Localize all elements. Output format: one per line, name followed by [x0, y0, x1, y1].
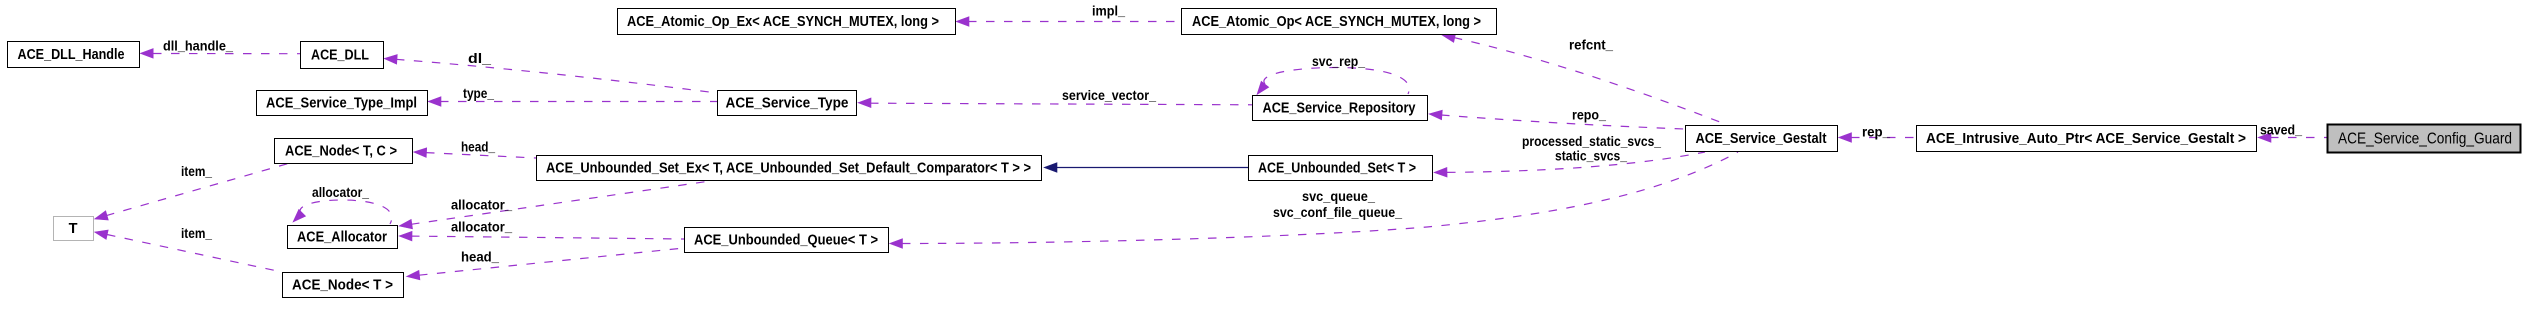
label item_: [181, 163, 212, 179]
svg-text:allocator_: allocator_: [312, 184, 369, 200]
edge service_vector_ (ACE_Service_Repository to ACE_Service_Type): [870, 103, 1252, 105]
edge inheritance (ACE_Unbounded_Set derives from ACE_Unbounded_Set_Ex): [1057, 167, 1248, 169]
label rep_: [1862, 124, 1890, 140]
edge allocator_ (ACE_Unbounded_Queue to ACE_Allocator): [411, 236, 684, 239]
svg-text:ACE_Allocator: ACE_Allocator: [297, 230, 387, 246]
arrowhead service_vector_: [858, 98, 871, 108]
svg-text:service_vector_: service_vector_: [1062, 87, 1156, 103]
arrowhead dll_handle_: [140, 49, 153, 59]
node ACE_DLL: [301, 42, 384, 69]
svg-text:repo_: repo_: [1572, 107, 1606, 123]
node ACE_Node( T ): [283, 273, 404, 298]
svg-text:static_svcs_: static_svcs_: [1555, 148, 1627, 164]
arrowhead rep_: [1839, 133, 1852, 143]
arrowhead impl_: [956, 17, 969, 27]
node ACE_Service_Config_Guard: [2328, 125, 2521, 153]
arrowhead item_ lower: [93, 227, 108, 239]
svg-text:rep_: rep_: [1862, 124, 1890, 140]
node ACE_Service_Type_Impl: [257, 91, 428, 116]
svg-text:svc_rep_: svc_rep_: [1312, 53, 1365, 69]
svg-text:ACE_Service_Type: ACE_Service_Type: [726, 96, 849, 112]
arrowhead head_ lower: [406, 270, 420, 281]
label svc_conf_file_queue_: [1273, 204, 1402, 220]
edge head_ (ACE_Unbounded_Queue to ACE_Node T): [419, 248, 684, 275]
svg-text:allocator_: allocator_: [451, 219, 512, 235]
svg-text:ACE_Service_Gestalt: ACE_Service_Gestalt: [1696, 131, 1827, 147]
node ACE_Service_Type: [718, 91, 857, 116]
label allocator_: [451, 219, 512, 235]
svg-text:svc_queue_: svc_queue_: [1302, 188, 1375, 204]
label processed_static_svcs_: [1522, 133, 1661, 149]
edge refcnt_ (ACE_Service_Gestalt to ACE_Atomic_Op): [1454, 38, 1725, 124]
svg-text:ACE_DLL_Handle: ACE_DLL_Handle: [18, 47, 125, 63]
edge saved_ (ACE_Service_Config_Guard to ACE_Intrusive_Auto_Ptr): [2270, 137, 2327, 139]
label refcnt_: [1569, 37, 1613, 53]
label saved_: [2260, 122, 2302, 138]
label item_: [181, 225, 212, 241]
edge item_ (ACE_Node T to T): [107, 235, 282, 273]
svg-text:head_: head_: [461, 139, 495, 155]
svg-text:ACE_Unbounded_Set_Ex< T, ACE_U: ACE_Unbounded_Set_Ex< T, ACE_Unbounded_S…: [546, 161, 1031, 177]
svg-text:T: T: [69, 221, 78, 237]
arrowhead dl_: [384, 54, 398, 64]
node ACE_DLL_Handle: [8, 42, 140, 68]
arrowhead refcnt_: [1441, 30, 1456, 42]
label dll_handle_: [163, 38, 233, 54]
svg-text:svc_conf_file_queue_: svc_conf_file_queue_: [1273, 204, 1402, 220]
label dl_: [468, 50, 491, 66]
svg-text:ACE_Node< T >: ACE_Node< T >: [292, 278, 393, 294]
svg-text:item_: item_: [181, 225, 212, 241]
svg-text:item_: item_: [181, 163, 212, 179]
svg-text:impl_: impl_: [1092, 3, 1125, 19]
arrowhead saved_: [2258, 133, 2271, 143]
arrowhead svc_rep_: [1253, 81, 1269, 97]
arrowhead item_ upper: [93, 211, 108, 224]
arrowhead inheritance: [1044, 163, 1057, 173]
arrowhead allocator_ upper: [398, 219, 412, 230]
label head_: [461, 249, 499, 265]
svg-text:ACE_Unbounded_Set< T >: ACE_Unbounded_Set< T >: [1258, 161, 1416, 177]
edge svc_rep_ self-loop on ACE_Service_Repository: [1264, 68, 1409, 95]
node T: [54, 217, 94, 241]
arrowhead static_svcs_: [1434, 167, 1447, 177]
arrowhead head_ upper: [413, 147, 426, 157]
svg-text:allocator_: allocator_: [451, 197, 512, 213]
node ACE_Allocator: [288, 226, 398, 249]
node ACE_Unbounded_Set( T ): [1249, 156, 1433, 181]
edge head_ (ACE_Unbounded_Set_Ex to ACE_Node T C): [426, 153, 536, 158]
label service_vector_: [1062, 87, 1156, 103]
label allocator_: [312, 184, 369, 200]
node ACE_Unbounded_Set_Ex( T, ACE_Unbounded_Set_Default_Comparator( T ) ): [537, 156, 1042, 181]
svg-text:dl_: dl_: [468, 50, 491, 66]
svg-text:saved_: saved_: [2260, 122, 2302, 138]
label repo_: [1572, 107, 1606, 123]
svg-text:head_: head_: [461, 249, 499, 265]
arrowhead type_: [428, 97, 441, 107]
svg-text:ACE_Service_Type_Impl: ACE_Service_Type_Impl: [266, 96, 417, 112]
edge rep_ (ACE_Intrusive_Auto_Ptr to ACE_Service_Gestalt): [1851, 137, 1916, 139]
node ACE_Service_Gestalt: [1686, 126, 1838, 152]
svg-text:ACE_DLL: ACE_DLL: [311, 48, 369, 64]
svg-text:dll_handle_: dll_handle_: [163, 38, 233, 54]
edge dll_handle_ (ACE_DLL to ACE_DLL_Handle): [153, 53, 300, 55]
svg-text:ACE_Atomic_Op< ACE_SYNCH_MUTEX: ACE_Atomic_Op< ACE_SYNCH_MUTEX, long >: [1192, 14, 1481, 30]
svg-text:ACE_Node< T, C >: ACE_Node< T, C >: [285, 144, 397, 160]
label svc_rep_: [1312, 53, 1365, 69]
svg-text:refcnt_: refcnt_: [1569, 37, 1613, 53]
node ACE_Unbounded_Queue( T ): [685, 228, 889, 253]
edge processed_static_svcs_/static_svcs_ (ACE_Service_Gestalt to ACE_Unbounded_Set): [1447, 152, 1705, 172]
svg-text:ACE_Unbounded_Queue< T >: ACE_Unbounded_Queue< T >: [694, 233, 878, 249]
edge item_ (ACE_Node T C to T): [106, 163, 290, 216]
edge allocator_ (ACE_Unbounded_Set_Ex to ACE_Allocator): [411, 180, 717, 224]
edge type_ (ACE_Service_Type to ACE_Service_Type_Impl): [440, 101, 717, 103]
arrowhead svc_queue_: [890, 239, 903, 249]
label type_: [463, 85, 494, 101]
node ACE_Service_Repository: [1253, 96, 1428, 121]
arrowhead allocator_ lower: [399, 231, 412, 241]
edge allocator_ self-loop on ACE_Allocator: [300, 200, 392, 224]
node ACE_Intrusive_Auto_Ptr( ACE_Service_Gestalt ): [1917, 126, 2257, 152]
svg-text:ACE_Service_Repository: ACE_Service_Repository: [1263, 101, 1416, 117]
node ACE_Atomic_Op_Ex( ACE_SYNCH_MUTEX, long ): [618, 9, 956, 35]
label static_svcs_: [1555, 148, 1627, 164]
svg-text:ACE_Service_Config_Guard: ACE_Service_Config_Guard: [2338, 131, 2512, 148]
edge impl_ (ACE_Atomic_Op to ACE_Atomic_Op_Ex): [968, 21, 1181, 23]
label allocator_: [451, 197, 512, 213]
arrowhead repo_: [1429, 109, 1443, 120]
svg-text:ACE_Atomic_Op_Ex< ACE_SYNCH_MU: ACE_Atomic_Op_Ex< ACE_SYNCH_MUTEX, long …: [627, 14, 939, 30]
node ACE_Node( T, C ): [275, 139, 413, 164]
label head_: [461, 139, 495, 155]
edge svc_queue_/svc_conf_file_queue_ (ACE_Service_Gestalt to ACE_Unbounded_Queue): [902, 152, 1738, 244]
edge dl_ (ACE_Service_Type to ACE_DLL): [396, 59, 717, 93]
svg-text:type_: type_: [463, 85, 494, 101]
edge repo_ (ACE_Service_Gestalt to ACE_Service_Repository): [1441, 115, 1685, 129]
label svc_queue_: [1302, 188, 1375, 204]
label impl_: [1092, 3, 1125, 19]
svg-text:ACE_Intrusive_Auto_Ptr< ACE_Se: ACE_Intrusive_Auto_Ptr< ACE_Service_Gest…: [1926, 131, 2246, 147]
arrowhead allocator_ loop: [290, 209, 306, 225]
node ACE_Atomic_Op( ACE_SYNCH_MUTEX, long ): [1182, 9, 1497, 35]
